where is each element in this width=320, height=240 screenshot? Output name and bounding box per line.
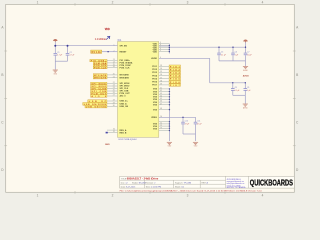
svg-text:29: 29 — [113, 102, 115, 104]
svg-text:PIO6: PIO6 — [152, 82, 158, 84]
svg-text:33: 33 — [160, 65, 162, 67]
svg-text:SPI_EN: SPI_EN — [120, 46, 128, 48]
svg-text:0.1 µF: 0.1 µF — [221, 54, 226, 56]
svg-text:53: 53 — [160, 128, 162, 130]
svg-text:AIO_0: AIO_0 — [120, 95, 127, 98]
svg-text:QUICKBOARDS: QUICKBOARDS — [250, 177, 293, 187]
svg-text:VSS: VSS — [153, 109, 158, 111]
svg-text:MTX/ATB: MTX/ATB — [94, 74, 107, 77]
svg-text:20: 20 — [113, 74, 115, 76]
svg-text:C2: C2 — [70, 52, 72, 54]
svg-text:PIO2: PIO2 — [152, 69, 158, 71]
svg-text:C8: C8 — [235, 87, 237, 89]
svg-text:RESET: RESET — [120, 51, 128, 53]
svg-text:Revision: 2: Revision: 2 — [146, 182, 157, 184]
svg-text:USB_DP: USB_DP — [89, 101, 107, 103]
svg-text:47: 47 — [160, 103, 162, 105]
svg-text:45: 45 — [160, 98, 162, 100]
svg-text:34: 34 — [160, 68, 162, 70]
svg-text:0.1 µF: 0.1 µF — [235, 90, 240, 92]
svg-text:32: 32 — [113, 128, 115, 130]
svg-text:Sheet: 1/1: Sheet: 1/1 — [175, 185, 185, 188]
svg-text:PCM_CLK: PCM_CLK — [94, 68, 107, 70]
svg-text:4.7 µF: 4.7 µF — [57, 55, 62, 57]
svg-text:IC1: IC1 — [118, 39, 122, 42]
svg-text:C6: C6 — [235, 52, 237, 54]
svg-text:6809A2SLT - 24kB iDrive: 6809A2SLT - 24kB iDrive — [127, 177, 159, 181]
svg-text:File: C:\Users\qb\Documents\ea: File: C:\Users\qb\Documents\eagle\projec… — [120, 189, 263, 192]
svg-text:37: 37 — [160, 77, 162, 79]
svg-text:RES_B: RES_B — [120, 133, 127, 135]
svg-text:Time: 1:11:30 PM: Time: 1:11:30 PM — [146, 186, 162, 188]
svg-text:B: B — [296, 73, 298, 77]
svg-text:48: 48 — [160, 108, 162, 110]
svg-text:AVDD: AVDD — [151, 57, 157, 60]
svg-text:38: 38 — [160, 80, 162, 82]
svg-text:47 µF: 47 µF — [185, 123, 189, 125]
svg-text:4: 4 — [262, 1, 264, 5]
svg-text:C7: C7 — [247, 52, 249, 54]
svg-text:VDD: VDD — [105, 28, 110, 31]
svg-text:BC417143B-IQN-E4: BC417143B-IQN-E4 — [119, 139, 138, 141]
svg-text:USB_DN/RXEN: USB_DN/RXEN — [84, 104, 107, 106]
svg-text:27: 27 — [113, 95, 115, 97]
svg-text:C9: C9 — [247, 87, 249, 89]
svg-text:REV: A: REV: A — [202, 181, 209, 184]
svg-text:5: 5 — [160, 50, 161, 52]
svg-text:39: 39 — [160, 84, 162, 86]
svg-text:R1 1.1k: R1 1.1k — [92, 52, 102, 54]
svg-text:MTX/ATB: MTX/ATB — [120, 74, 130, 77]
svg-text:USB_ON/TXD: USB_ON/TXD — [86, 107, 107, 109]
svg-text:31: 31 — [113, 131, 115, 133]
svg-text:C5: C5 — [221, 52, 223, 54]
svg-text:PIO7: PIO7 — [152, 85, 158, 87]
svg-text:MRX/ATB: MRX/ATB — [120, 76, 130, 79]
svg-text:2: 2 — [112, 1, 114, 5]
svg-text:C11: C11 — [197, 121, 200, 123]
svg-text:1.1 kOhms: 1.1 kOhms — [95, 39, 107, 41]
svg-text:B: B — [1, 73, 3, 77]
svg-text:47 µF: 47 µF — [197, 123, 201, 125]
svg-text:PIO3: PIO3 — [152, 72, 158, 74]
svg-text:4.7 µF: 4.7 µF — [70, 55, 75, 57]
svg-text:16: 16 — [113, 66, 115, 68]
svg-text:4: 4 — [262, 194, 264, 198]
svg-text:PIO4: PIO4 — [152, 74, 158, 77]
svg-text:RES_A: RES_A — [120, 129, 127, 132]
svg-text:3: 3 — [187, 194, 189, 198]
svg-text:C1: C1 — [57, 52, 59, 54]
svg-text:Sagnum: TF-5486: Sagnum: TF-5486 — [175, 182, 192, 184]
svg-text:AUSTIN, TX CANADA: AUSTIN, TX CANADA — [227, 186, 247, 189]
svg-text:Doc: v2: Doc: v2 — [121, 182, 129, 184]
svg-text:PCM_CLK: PCM_CLK — [120, 67, 131, 69]
svg-text:USB_ON: USB_ON — [120, 106, 129, 108]
svg-text:PIO5: PIO5 — [152, 78, 158, 80]
svg-text:50: 50 — [160, 116, 162, 118]
svg-text:21: 21 — [113, 76, 115, 78]
svg-text:USB_D+: USB_D+ — [120, 101, 129, 103]
svg-text:USB_D-: USB_D- — [120, 103, 128, 105]
svg-text:VSS: VSS — [153, 89, 158, 91]
svg-text:VSS: VSS — [153, 99, 158, 101]
svg-text:2: 2 — [114, 50, 115, 52]
svg-text:2: 2 — [112, 194, 114, 198]
svg-text:28: 28 — [113, 100, 115, 102]
svg-text:1 µF: 1 µF — [235, 54, 238, 56]
svg-text:PIO1: PIO1 — [152, 66, 158, 68]
svg-text:10 µF: 10 µF — [247, 54, 251, 56]
svg-text:VSS: VSS — [153, 129, 158, 131]
svg-text:36: 36 — [160, 74, 162, 76]
svg-text:VDD: VDD — [153, 51, 158, 53]
svg-text:GND: GND — [105, 144, 110, 146]
svg-text:1 µF: 1 µF — [247, 90, 250, 92]
svg-text:1: 1 — [37, 194, 39, 198]
svg-text:3: 3 — [187, 1, 189, 5]
svg-text:MRX/ATB: MRX/ATB — [94, 77, 107, 80]
svg-text:C10: C10 — [185, 121, 188, 123]
svg-text:35: 35 — [160, 71, 162, 73]
svg-text:1: 1 — [114, 44, 115, 46]
svg-text:1: 1 — [37, 1, 39, 5]
svg-text:Studio: BS-084: Studio: BS-084 — [132, 181, 146, 184]
svg-text:41: 41 — [160, 88, 162, 90]
svg-text:30: 30 — [113, 105, 115, 107]
svg-text:AVDD: AVDD — [243, 75, 249, 78]
svg-text:Date: 8-17-2015: Date: 8-17-2015 — [121, 185, 136, 188]
svg-text:VSS: VSS — [153, 104, 158, 106]
svg-text:4: 4 — [160, 57, 161, 59]
svg-text:VREG: VREG — [151, 117, 157, 119]
